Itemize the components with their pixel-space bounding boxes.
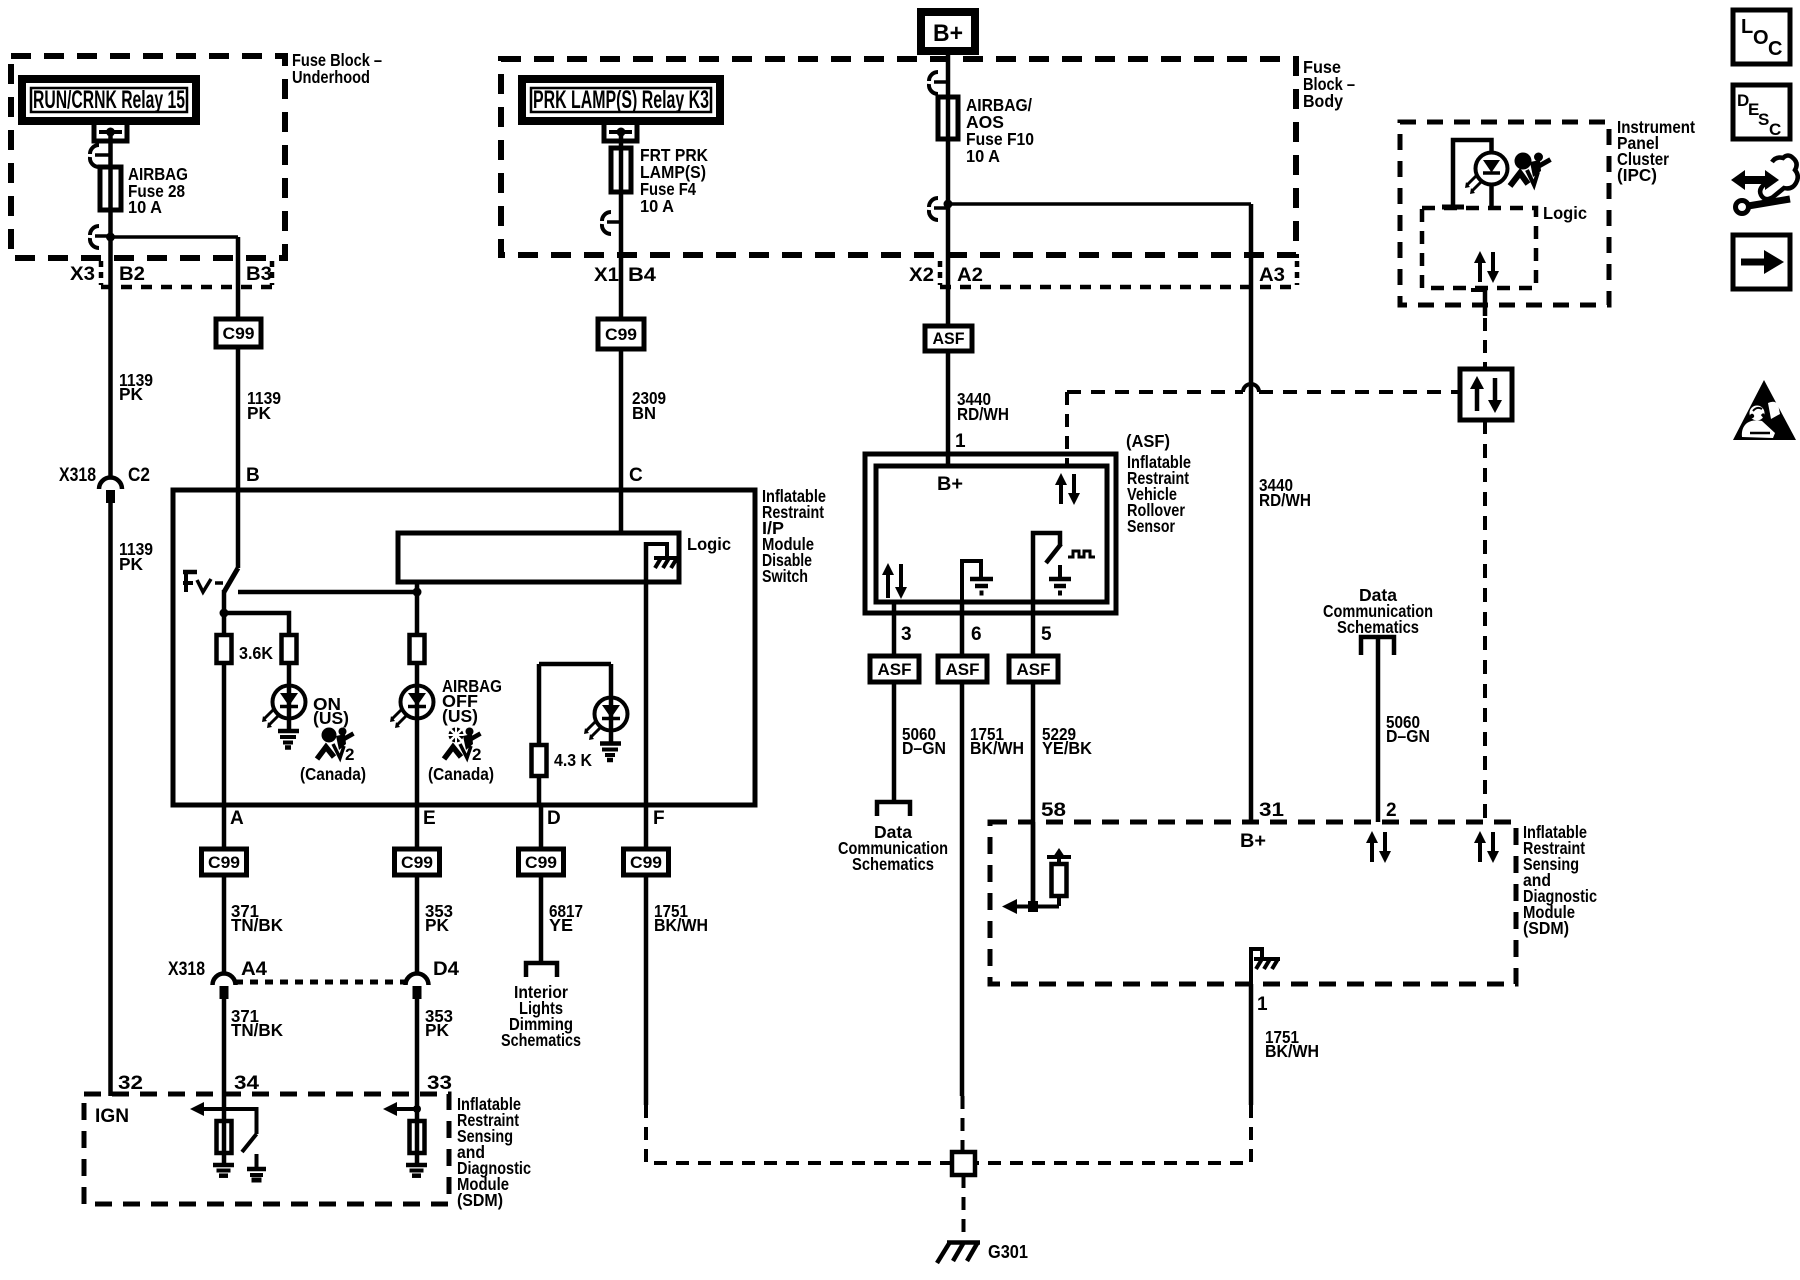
junction dot at E throw: [413, 588, 422, 597]
fuse AIRBAG/AOS Fuse F10 10 A: [938, 97, 958, 139]
svg-text:D–GN: D–GN: [902, 738, 946, 758]
resistor R7 inside SDM: [1047, 848, 1071, 906]
ground under rollover switch: [1049, 565, 1071, 593]
arrow box on serial data line: [1460, 369, 1512, 420]
svg-text:RD/WH: RD/WH: [1259, 490, 1311, 510]
svg-text:C99: C99: [525, 853, 557, 872]
svg-text:C99: C99: [223, 324, 255, 343]
connector X318 D4 symbol: [406, 974, 429, 1000]
switch SW1 actuator symbol: [183, 570, 223, 592]
wire resistor1 down to pin A: [222, 636, 227, 805]
connector C99 box pin F: [624, 849, 669, 875]
svg-text:C: C: [629, 465, 643, 486]
svg-text:(IPC): (IPC): [1617, 165, 1657, 185]
svg-text:Schematics: Schematics: [1337, 617, 1419, 637]
wire D right leg: [609, 664, 614, 744]
ground under SDM lever: [247, 1154, 266, 1180]
svg-text:PK: PK: [119, 384, 143, 404]
svg-text:A3: A3: [1259, 265, 1285, 286]
wire resistor2 to LED1: [287, 663, 292, 733]
offpage bracket to interior lights dimming: [526, 963, 557, 977]
icon adjust arrows wrench: [1731, 156, 1798, 214]
wire pin 33 inside SDM: [415, 1096, 420, 1164]
resistor R2 3.6K: [282, 635, 297, 663]
junction dot left: [220, 609, 229, 618]
svg-text:ASF: ASF: [946, 660, 980, 679]
arrows up/down at SDM serial data: [1474, 831, 1499, 863]
relay RUN/CRNK Relay 15 title box: [22, 79, 196, 121]
svg-text:IGN: IGN: [95, 1106, 129, 1127]
icon forward arrow box: [1733, 235, 1790, 289]
wire pin F 1751 BK/WH: [644, 805, 649, 1105]
svg-text:1: 1: [1257, 994, 1268, 1015]
svg-text:A2: A2: [957, 265, 983, 286]
connector ASF box pin 3: [870, 656, 919, 682]
connector X3 row separators: [99, 261, 104, 285]
connector X318 A4 symbol: [213, 974, 236, 1000]
connector X3 row bottom dotted: [101, 285, 272, 290]
svg-text:Sensor: Sensor: [1127, 516, 1175, 536]
relay K3 contact symbol: [604, 125, 637, 141]
LED4 airbag telltale: [1465, 153, 1508, 195]
ground under R5: [213, 1165, 234, 1176]
wire arrow left inside SDM: [1016, 905, 1059, 909]
connector X318 C2 symbol: [99, 478, 122, 504]
wire dashed serial data rollover to IPC: [1067, 390, 1243, 394]
svg-text:B2: B2: [119, 264, 145, 285]
resistor R1 3.6K: [217, 635, 232, 663]
junction dot at fuse28 branch: [106, 233, 115, 242]
wire D left leg: [537, 664, 542, 805]
svg-text:31: 31: [1259, 800, 1285, 821]
svg-text:2: 2: [472, 745, 481, 764]
ground below LED1: [278, 731, 299, 748]
svg-text:D: D: [547, 808, 561, 829]
LED2 AIRBAG OFF indicator: [390, 686, 434, 729]
connector C99 box pin E: [395, 849, 440, 875]
svg-text:B: B: [246, 465, 260, 486]
svg-text:3: 3: [901, 624, 912, 645]
connector break above fuse F10: [929, 72, 948, 94]
connector C99 box pin D: [519, 849, 564, 875]
relay PRK LAMP(S) Relay K3 title box: [522, 79, 720, 121]
icon DESC box: [1733, 85, 1790, 139]
offpage bracket pin 3 to data comm: [877, 802, 910, 816]
junction square at pin 58: [1028, 901, 1038, 912]
wire dashed splice to G301: [962, 1175, 966, 1240]
svg-text:BK/WH: BK/WH: [1265, 1041, 1319, 1061]
svg-text:(US): (US): [442, 706, 478, 726]
svg-text:ASF: ASF: [933, 329, 965, 348]
svg-text:X318: X318: [168, 959, 205, 980]
svg-text:A: A: [230, 808, 244, 829]
svg-text:X1: X1: [594, 265, 619, 286]
airbag icon IPC: [1510, 153, 1551, 187]
wire D branch top: [539, 662, 611, 667]
switch SW1 lever: [224, 568, 238, 592]
wire pin 1 dashed to splice: [976, 1105, 1251, 1163]
svg-text:PK: PK: [247, 403, 271, 423]
svg-text:PK: PK: [425, 915, 449, 935]
wire B2 1139 PK below X318 C2: [108, 503, 113, 1096]
wire rollover pin 5 5229 YE/BK: [1031, 602, 1036, 906]
svg-text:C: C: [1768, 38, 1782, 60]
wire dashed from corner down into rollover sensor: [1065, 392, 1069, 466]
junction dot pin 33: [413, 1105, 421, 1113]
arrows up/down inside IPC logic: [1474, 251, 1499, 283]
svg-text:D–GN: D–GN: [1386, 726, 1430, 746]
module SDM right dashed box: [990, 822, 1516, 984]
svg-text:4.3 K: 4.3 K: [554, 750, 592, 770]
svg-text:B4: B4: [628, 265, 656, 286]
icon child seat warning triangle: [1733, 380, 1796, 440]
wire pin F dashed to splice: [646, 1105, 950, 1163]
svg-text:ASF: ASF: [878, 660, 912, 679]
wire crossover hop of dashed over A3 wire: [1243, 384, 1259, 392]
wire junction to resistor 2: [224, 613, 289, 636]
resistor R3: [410, 635, 425, 663]
connector break symbol lower: [90, 226, 110, 248]
svg-text:10 A: 10 A: [966, 146, 1000, 166]
switch lever inside SDM: [224, 1109, 257, 1152]
svg-text:6: 6: [971, 624, 982, 645]
wire rollover pin 3: [892, 602, 897, 801]
wire B3 1139 PK vertical to switch: [236, 237, 241, 568]
connector ASF box pin 5: [1009, 656, 1058, 682]
svg-text:33: 33: [427, 1073, 452, 1094]
ground below LED3: [600, 744, 621, 761]
ground symbol mid sensor: [962, 561, 993, 601]
wire pin 6 dashed to splice: [961, 1096, 965, 1152]
svg-text:C2: C2: [128, 465, 150, 486]
arrows up/down at SDM pin 2: [1366, 831, 1391, 863]
wire pin 58 inside SDM: [1031, 822, 1036, 906]
fuse block body dashed box: [501, 59, 1296, 255]
connector break below fuse F4: [602, 212, 621, 234]
module U1 Inflatable Restraint I/P Module Disable Switch box: [173, 490, 755, 805]
svg-text:BK/WH: BK/WH: [654, 915, 708, 935]
logic box inside disable switch: [398, 533, 679, 582]
svg-text:10 A: 10 A: [640, 196, 674, 216]
connector X2 A2 separators: [938, 261, 943, 285]
rollover waveform symbol: [1068, 551, 1095, 557]
wire from lever to junction: [222, 590, 227, 636]
wire F inside module: [644, 542, 649, 805]
chassis ground inside logic box: [646, 544, 678, 568]
chassis ground at SDM pin 1: [1251, 949, 1280, 984]
resistor R6 in SDM: [410, 1121, 425, 1153]
svg-text:B3: B3: [246, 264, 272, 285]
svg-text:(ASF): (ASF): [1126, 431, 1170, 451]
wire branch B+ to A3: [948, 202, 1251, 206]
svg-text:5: 5: [1041, 624, 1052, 645]
svg-text:BN: BN: [632, 403, 656, 423]
junction dot at F10 branch: [944, 200, 953, 209]
arrows up/down top right of sensor: [1055, 473, 1080, 505]
svg-text:C99: C99: [401, 853, 433, 872]
module ASF rollover sensor inner box: [876, 466, 1107, 602]
svg-text:(US): (US): [313, 708, 349, 728]
svg-text:O: O: [1753, 27, 1769, 49]
svg-text:RD/WH: RD/WH: [957, 404, 1009, 424]
module IPC dashed box: [1400, 122, 1609, 305]
svg-text:RUN/CRNK Relay 15: RUN/CRNK Relay 15: [33, 86, 185, 114]
svg-text:D4: D4: [433, 959, 459, 980]
svg-text:C99: C99: [630, 853, 662, 872]
svg-text:BK/WH: BK/WH: [970, 738, 1024, 758]
arrow left on pin 34: [190, 1102, 224, 1116]
svg-text:X3: X3: [70, 264, 95, 285]
svg-text:(Canada): (Canada): [300, 764, 366, 784]
splice S301 square node: [952, 1152, 975, 1175]
ground G301 symbol: [937, 1242, 980, 1263]
connector break below fuse F10: [929, 198, 948, 220]
svg-text:F: F: [653, 808, 665, 829]
connector ASF box pin 6: [938, 656, 987, 682]
LED4 airbag telltale loop wire: [1453, 140, 1492, 207]
svg-text:E: E: [423, 808, 436, 829]
svg-text:PRK LAMP(S) Relay K3: PRK LAMP(S) Relay K3: [533, 86, 709, 114]
svg-text:TN/BK: TN/BK: [231, 1020, 283, 1040]
wire B+ 3440 RD/WH vertical: [946, 51, 951, 466]
icon LOC box: [1733, 10, 1790, 64]
airbag icon 2 with crossed head (Canada): [444, 727, 481, 765]
offpage bracket data comm to pin 2: [1361, 637, 1394, 655]
connector C99 top left box: [216, 319, 261, 347]
arrows up/down bottom left of sensor: [882, 563, 907, 599]
wire E branch: [415, 592, 420, 805]
svg-text:C: C: [1769, 120, 1781, 139]
svg-text:X318: X318: [59, 465, 96, 486]
svg-text:(Canada): (Canada): [428, 764, 494, 784]
ground under R6: [406, 1165, 427, 1176]
svg-text:C99: C99: [208, 853, 240, 872]
wire pin E 353 PK: [415, 805, 420, 974]
svg-text:Underhood: Underhood: [292, 67, 370, 87]
svg-text:Switch: Switch: [762, 566, 808, 586]
svg-text:C99: C99: [605, 325, 637, 344]
svg-text:(SDM): (SDM): [457, 1190, 503, 1210]
svg-text:ASF: ASF: [1017, 660, 1051, 679]
wire switch right throw to logic: [238, 582, 417, 592]
wire branch fuse28 to B3: [111, 235, 239, 239]
fuse FRT PRK LAMP(S) Fuse F4 10 A: [611, 148, 631, 192]
svg-text:YE: YE: [549, 915, 573, 935]
svg-text:L: L: [1741, 16, 1753, 38]
resistor R5 in SDM: [217, 1121, 232, 1153]
fuse block underhood dashed box: [11, 56, 285, 258]
svg-text:2: 2: [345, 745, 354, 764]
wire dashed IPC to arrow box: [1483, 296, 1487, 369]
svg-text:Body: Body: [1303, 91, 1343, 111]
svg-text:S: S: [1758, 110, 1769, 129]
svg-text:58: 58: [1041, 800, 1066, 821]
relay contact symbol: [94, 125, 127, 141]
svg-text:Schematics: Schematics: [852, 854, 934, 874]
svg-text:(SDM): (SDM): [1523, 918, 1569, 938]
svg-text:3.6K: 3.6K: [239, 643, 273, 663]
wire A3 3440 RD/WH vertical to SDM pin 31: [1249, 204, 1254, 822]
module SDM left dashed box (IGN): [84, 1094, 449, 1204]
svg-text:X2: X2: [909, 265, 934, 286]
svg-text:A4: A4: [241, 959, 267, 980]
arrow left on pin 33: [383, 1102, 417, 1116]
svg-text:B+: B+: [933, 20, 963, 47]
wire B2 1139 PK left vertical: [108, 132, 113, 477]
svg-text:PK: PK: [425, 1020, 449, 1040]
svg-text:TN/BK: TN/BK: [231, 915, 283, 935]
dotted connector line A4 to D4: [235, 980, 405, 985]
svg-text:Schematics: Schematics: [501, 1030, 581, 1050]
wire 2309 BN vertical from PRK relay to logic: [619, 132, 624, 533]
wire pin D 6817 YE: [539, 805, 544, 963]
svg-text:Logic: Logic: [1543, 203, 1587, 223]
svg-text:YE/BK: YE/BK: [1042, 738, 1092, 758]
svg-text:PK: PK: [119, 554, 143, 574]
wire SDM pin 2 5060 D-GN: [1376, 637, 1381, 822]
connector break symbol upper: [90, 145, 110, 167]
svg-text:10 A: 10 A: [128, 197, 162, 217]
airbag icon 1 (Canada): [317, 728, 354, 765]
logic dashed box IPC: [1422, 208, 1536, 288]
svg-text:2: 2: [1386, 800, 1397, 821]
connector ASF top box: [925, 326, 972, 351]
svg-text:B+: B+: [1240, 831, 1266, 852]
connector X2 row bottom dotted: [940, 285, 1297, 290]
fuse AIRBAG Fuse 28 10 A: [100, 167, 121, 210]
svg-text:G301: G301: [988, 1242, 1028, 1262]
wire SDM pin 1 1751 BK/WH: [1249, 984, 1254, 1105]
rollover switch inside sensor: [1033, 533, 1061, 601]
resistor R4 4.3 K: [532, 745, 547, 776]
module ASF rollover sensor outer box: [865, 454, 1116, 613]
svg-text:32: 32: [118, 1073, 143, 1094]
node B+ battery box: [921, 12, 975, 51]
wire rollover pin 6 1751 BK/WH: [960, 602, 965, 1096]
LED3 dimming indicator: [584, 698, 628, 741]
LED1 ON indicator: [262, 686, 306, 729]
wire pin 34 inside SDM: [222, 1096, 227, 1164]
svg-text:34: 34: [234, 1073, 260, 1094]
svg-text:B+: B+: [937, 474, 963, 495]
wire dashed arrow box to SDM: [1483, 420, 1487, 822]
svg-text:Logic: Logic: [687, 534, 731, 554]
wire pin A 371 TN/BK: [222, 805, 227, 974]
connector C99 mid box: [598, 319, 644, 349]
connector C99 box pin A: [202, 849, 247, 875]
svg-text:1: 1: [955, 431, 966, 452]
